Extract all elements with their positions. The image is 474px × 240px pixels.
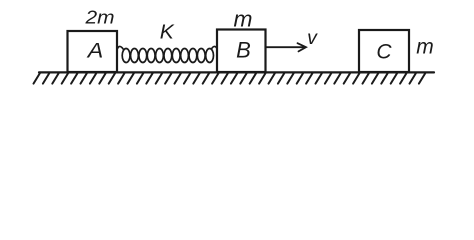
svg-text:m: m xyxy=(234,7,253,32)
svg-text:v: v xyxy=(307,27,318,49)
svg-text:B: B xyxy=(236,38,251,63)
velocity arrow xyxy=(266,46,304,48)
svg-text:2m: 2m xyxy=(84,7,114,28)
ground hatching xyxy=(34,73,426,84)
ground line xyxy=(39,71,434,73)
spring K coil xyxy=(118,46,218,62)
block A xyxy=(68,31,118,72)
svg-text:m: m xyxy=(416,36,434,59)
svg-text:A: A xyxy=(86,39,104,63)
svg-text:C: C xyxy=(376,41,392,64)
block B xyxy=(217,30,266,73)
svg-text:K: K xyxy=(160,22,176,44)
block C xyxy=(359,30,409,72)
